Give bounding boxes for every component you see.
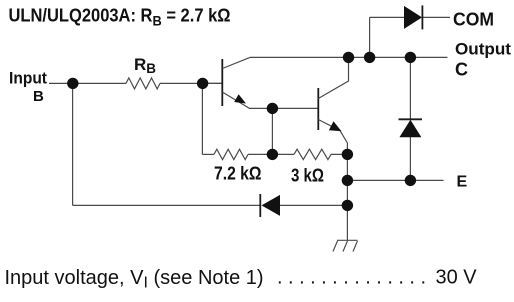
- transistor Q1 base bar: [221, 59, 223, 106]
- svg-text:COM: COM: [453, 10, 494, 30]
- node: Q1 emitter / Q2 base junction: [267, 103, 278, 114]
- svg-text:30 V: 30 V: [436, 267, 478, 289]
- wire: Q1 base lead into bar: [203, 82, 222, 84]
- wire: clamp diode to E line: [409, 137, 411, 180]
- wire: COM diode to label: [422, 16, 450, 18]
- wire: input node vertical down: [72, 83, 74, 205]
- wire: 3k right lead: [331, 153, 347, 155]
- node: COM branch junction: [364, 52, 375, 63]
- svg-text:Input voltage, VI (see Note 1): Input voltage, VI (see Note 1): [5, 267, 264, 292]
- wire: mid node vertical (Q2 base tie): [271, 108, 273, 154]
- node: diode top junction: [405, 52, 416, 63]
- transistor Q2 collector lead: [318, 57, 348, 98]
- transistor Q2 emitter arrow: [329, 121, 342, 131]
- diode D1 triangle (COM diode): [404, 6, 422, 29]
- node: input junction: [67, 78, 78, 89]
- wire: COM line to diode: [370, 16, 404, 18]
- diode D3 triangle (input clamp diode): [262, 195, 281, 216]
- transistor Q1 collector lead: [222, 57, 250, 68]
- resistor RB: [126, 78, 160, 89]
- wire: Q1 base node vertical down to 7.2k: [201, 83, 203, 154]
- wire: E line: [347, 179, 443, 181]
- resistor 3k: [294, 149, 331, 159]
- transistor Q2 emitter lead: [318, 120, 347, 155]
- wire: clamp row horizontal right segment: [280, 204, 347, 206]
- node: diode bottom junction: [405, 175, 416, 186]
- wire: output line: [250, 56, 448, 58]
- node: 7.2k / 3k junction: [267, 149, 278, 160]
- svg-text:RB: RB: [134, 55, 156, 76]
- svg-text:B: B: [33, 88, 44, 105]
- svg-text:..............: ..............: [277, 267, 426, 289]
- svg-text:ULN/ULQ2003A: RB = 2.7 kΩ: ULN/ULQ2003A: RB = 2.7 kΩ: [9, 5, 231, 28]
- ground: [333, 240, 358, 251]
- wire: RB to Q1 base: [160, 82, 222, 84]
- svg-text:7.2 kΩ: 7.2 kΩ: [214, 164, 262, 184]
- transistor Q1 emitter arrow: [234, 94, 246, 103]
- wire: 7.2k left lead: [202, 153, 214, 155]
- node: clamp wire junction: [342, 200, 353, 211]
- diode D2 triangle (output clamp diode): [399, 120, 421, 138]
- diode D1 cathode bar (COM diode): [421, 5, 423, 29]
- resistor 7.2k: [214, 149, 248, 159]
- node: E line junction: [342, 175, 353, 186]
- wire: output node down to clamp diode: [409, 57, 411, 119]
- wire: input horizontal to RB: [49, 82, 126, 84]
- svg-text:Output: Output: [455, 40, 511, 59]
- wire: COM branch vertical: [369, 17, 371, 57]
- svg-text:E: E: [457, 174, 468, 191]
- diode D2 cathode bar (output clamp diode): [399, 118, 423, 120]
- wire: clamp row horizontal left segment: [73, 204, 260, 206]
- node: Q2 collector / output junction: [343, 52, 354, 63]
- wire: node column vertical to ground: [346, 154, 348, 240]
- diode D3 cathode bar (input clamp diode): [259, 194, 261, 217]
- node: 3k right junction: [342, 149, 353, 160]
- transistor Q1 emitter lead: [222, 92, 272, 108]
- node: Q1 base junction: [197, 78, 208, 89]
- wire: between 7.2k and 3k: [248, 153, 294, 155]
- svg-text:Input: Input: [9, 70, 47, 88]
- transistor Q2 base bar: [317, 88, 319, 130]
- svg-text:C: C: [455, 59, 468, 79]
- wire: Q1 emitter node to Q2 base: [272, 107, 318, 109]
- svg-text:3 kΩ: 3 kΩ: [291, 166, 324, 186]
